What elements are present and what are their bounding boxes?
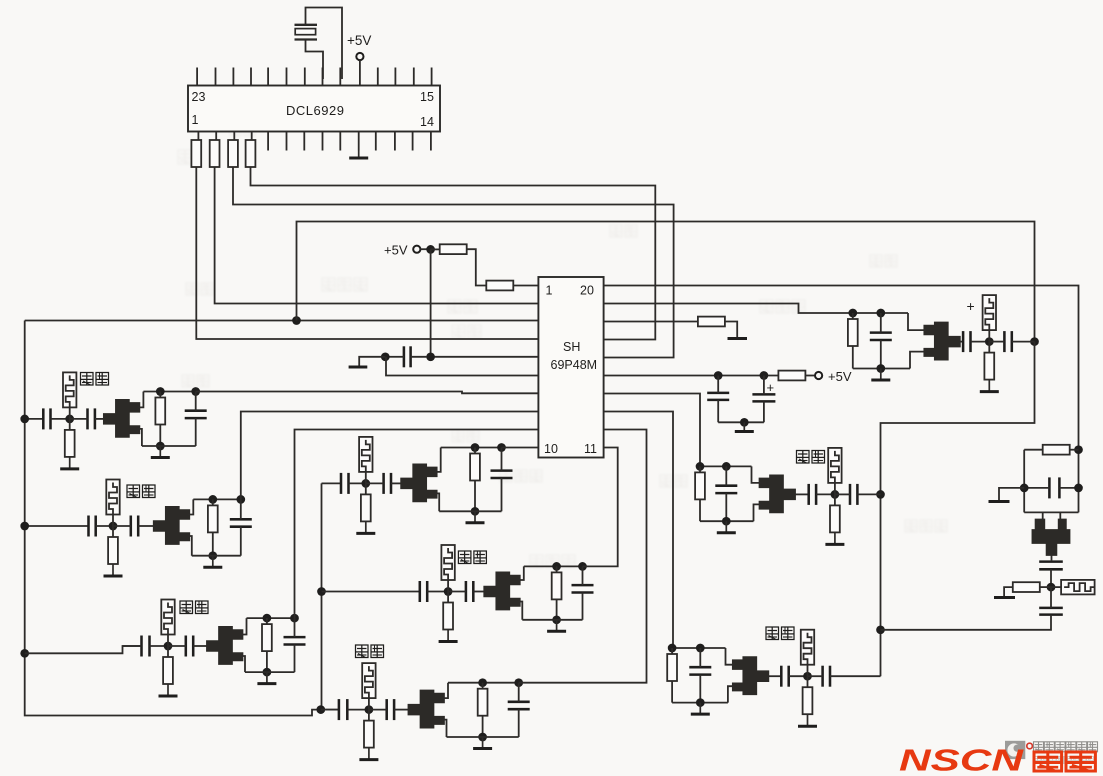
- wire ZHENGZHU(steam) base to cap: [768, 675, 781, 677]
- ground CHAOCAI(stirfry) output: [473, 737, 492, 749]
- wire ground stub (pin5 node): [359, 357, 385, 366]
- node CHAOCAI(stirfry) bus B: [514, 678, 523, 687]
- wire DINGSHI(timer) collector up: [137, 392, 143, 408]
- wire HUOGUO(hotpot) collector up: [518, 566, 524, 580]
- label +5V (U1 pin1): [384, 243, 408, 258]
- ground (right cell top): [989, 500, 1010, 503]
- wire junction to pad: [1051, 586, 1061, 588]
- transistor Q MENGHUO(fiercefire): [759, 474, 796, 513]
- node right cell input junction: [1047, 583, 1056, 592]
- resistor R7 (+5V): [778, 371, 805, 381]
- wire TONGSUO(childlock) collector up: [241, 618, 247, 634]
- node common right column (touchpad + cell): [1030, 337, 1039, 346]
- resistor DINGWEN(temp) load: [212, 499, 214, 505]
- wire cap to HUOGUO(hotpot) junction: [427, 591, 448, 593]
- wire U1 pin3 common bus to left rail: [25, 320, 539, 322]
- node DINGSHI(timer) bus B: [191, 387, 200, 396]
- wire MENGHUO(fiercefire) emitter connector: [754, 504, 762, 521]
- wire junction to cap B KEY5: [366, 482, 384, 484]
- capacitor C6 input B (right cell): [1039, 608, 1063, 615]
- node HUOGUO(hotpot) input junction: [444, 587, 453, 596]
- wire HUOGUO(hotpot) emitter down: [518, 602, 523, 620]
- node MENGHUO(fiercefire) bus A: [696, 462, 705, 471]
- resistor TONGSUO(childlock) load: [266, 618, 268, 624]
- crystal X1 plates: [295, 25, 318, 40]
- wire ZHENGZHU(steam) capA to junction: [789, 675, 808, 677]
- wire HUOGUO(hotpot) filter cap connections: [582, 566, 584, 585]
- wire pin3 riser up and across to right column: [297, 222, 1035, 342]
- wire cap B to transistor base DINGSHI(timer): [95, 418, 104, 420]
- node KEY5 bottom: [471, 507, 480, 516]
- resistor CHAOCAI(stirfry) bias: [368, 710, 370, 721]
- label CHAOCAI 炒菜: [356, 645, 384, 658]
- wire HUOGUO(hotpot) output top bus: [524, 565, 583, 567]
- watermark text 电子工程世界: [1034, 742, 1098, 752]
- label HUOGUO 火锅: [458, 551, 486, 564]
- wire timer output to U1 pin7: [196, 392, 539, 394]
- wire KEY5 emitter down: [435, 493, 440, 511]
- svg-text:14: 14: [420, 115, 434, 129]
- wire menghuo capB to right rail: [857, 493, 880, 495]
- resistor R6: [486, 281, 513, 291]
- wire cap to DINGWEN(temp) junction: [96, 525, 113, 527]
- node ground caps: [740, 418, 749, 427]
- wire KEY5 load to bottom: [474, 480, 476, 511]
- wire DINGWEN(temp) output top bus: [193, 498, 241, 500]
- resistor R9 (right cell): [1024, 449, 1043, 451]
- resistor HUOGUO(hotpot) bias: [447, 592, 449, 603]
- ground PLUSKEY output: [871, 369, 890, 381]
- capacitor C TONGSUO(childlock) input A: [142, 636, 150, 657]
- wire right cell left riser: [1023, 450, 1025, 513]
- wire key5 output bus to U1 pin10: [502, 447, 539, 449]
- wire KEY5 output top bus: [441, 447, 502, 449]
- ground (pin5/6): [349, 366, 368, 369]
- ground DINGWEN(temp) bias: [104, 564, 123, 577]
- wire C5 to junction: [1050, 569, 1052, 587]
- svg-text:+5V: +5V: [384, 243, 408, 258]
- wire PLUSKEY capA to junction: [971, 341, 990, 343]
- wire base down: [1051, 555, 1053, 560]
- wire +5V riser to pin5 node: [430, 249, 432, 356]
- capacitor C MENGHUO(fiercefire) filter: [715, 486, 737, 493]
- wire cap to DINGSHI(timer) junction: [51, 418, 70, 420]
- ground +5V caps: [735, 422, 754, 431]
- wire U1 pin14 to menghuo cell: [604, 394, 700, 467]
- node at pin5 cap right: [426, 352, 435, 361]
- wire CHAOCAI(stirfry) bottom bus: [447, 736, 519, 738]
- transistor Q ZHENGZHU(steam): [732, 656, 769, 695]
- node +5V cap1: [714, 371, 723, 380]
- wire DINGSHI(timer) load to bottom: [159, 424, 161, 446]
- resistor PLUSKEY load: [852, 313, 854, 319]
- wire node to resistor R5: [431, 248, 440, 250]
- capacitor C MENGHUO(fiercefire) input B: [850, 484, 857, 505]
- ground DINGWEN(temp) output: [203, 556, 222, 568]
- resistor R8 (pin18): [698, 317, 725, 327]
- wire PLUSKEY load bottom: [852, 346, 854, 369]
- label + of C3: [767, 380, 775, 395]
- IC U2 name DCL6929: [286, 103, 344, 118]
- wire cap B to transistor base DINGWEN(temp): [138, 525, 154, 527]
- wire childlock output riser to U1 pin9: [295, 430, 539, 619]
- node DINGWEN(temp) bus A: [208, 495, 217, 504]
- wire temp output riser to U1 pin8: [241, 412, 539, 500]
- wire zhengzhu capB to right rail corner: [830, 675, 881, 677]
- wire pad to junction DINGSHI(timer): [69, 407, 71, 419]
- wire pad to junction CHAOCAI(stirfry): [368, 698, 370, 710]
- node mid riser hotpot: [317, 587, 326, 596]
- IC U2 top pin stubs: [196, 68, 198, 86]
- wire CHAOCAI(stirfry) collector up: [442, 683, 448, 698]
- IC U2 DCL6929 body: [188, 86, 440, 132]
- wire pad to junction KEY5: [365, 472, 367, 484]
- node mid riser bottom: [316, 705, 325, 714]
- wire PLUSKEY top bus: [853, 312, 908, 314]
- touch pad MENGHUO(fiercefire): [828, 448, 841, 483]
- resistor PLUSKEY bias: [988, 342, 990, 353]
- wire C3 connections: [763, 376, 765, 395]
- capacitor C1 (pin5): [404, 346, 411, 367]
- node TONGSUO(childlock) bottom: [263, 668, 272, 677]
- wire junction to C6: [1050, 587, 1052, 608]
- svg-text:69P48M: 69P48M: [551, 358, 598, 372]
- capacitor C3 electrolytic: [752, 394, 775, 401]
- wire junction to cap B DINGWEN(temp): [113, 525, 131, 527]
- node C4 right: [1074, 484, 1083, 493]
- wire right column down to second rail: [881, 342, 1035, 677]
- capacitor C HUOGUO(hotpot) input B: [466, 581, 473, 602]
- capacitor C PLUSKEY input B: [1004, 331, 1011, 352]
- wire crystal top loop to U2 pin: [306, 8, 343, 80]
- resistor ZHENGZHU(steam) bias: [807, 676, 809, 687]
- node TONGSUO(childlock) bus A: [263, 614, 272, 623]
- node ZHENGZHU(steam) bottom: [696, 698, 705, 707]
- wire ZHENGZHU(steam) top bus: [672, 647, 725, 649]
- wire U1 pin19 to plus-cell: [604, 304, 853, 314]
- label + (plus key): [967, 298, 975, 314]
- svg-text:1: 1: [546, 284, 553, 298]
- capacitor C DINGWEN(temp) input A: [89, 516, 96, 537]
- node HUOGUO(hotpot) bottom: [552, 615, 561, 624]
- IC U1 pin label 11: [584, 442, 597, 456]
- wire R5 to R6: [466, 249, 486, 285]
- +5V terminal (mid right): [815, 372, 822, 379]
- wire DINGSHI(timer) input from rail: [25, 418, 44, 420]
- label ZHENGZHU 蒸煮: [766, 627, 794, 640]
- wire pad to junction HUOGUO(hotpot): [447, 580, 449, 592]
- node ZHENGZHU(steam) input junction: [803, 672, 812, 681]
- wire U1 pin5 line: [434, 356, 538, 358]
- svg-text:+5V: +5V: [828, 369, 852, 384]
- ground KEY5 output: [466, 511, 485, 523]
- resistor R10 (right cell bias): [1039, 586, 1051, 588]
- wire cap to KEY5 junction: [349, 482, 366, 484]
- wire DINGWEN(temp) emitter down: [187, 536, 192, 556]
- wire R7 to +5V terminal: [805, 375, 815, 377]
- touch pad PLUSKEY: [983, 295, 996, 330]
- ground TONGSUO(childlock) bias: [159, 684, 178, 697]
- label MENGHUO 猛火: [797, 451, 825, 464]
- IC U2 pin label 23: [192, 90, 206, 104]
- capacitor C HUOGUO(hotpot) filter: [572, 585, 594, 592]
- svg-text:SH: SH: [563, 340, 580, 354]
- transistor Q right cell (base down): [1032, 519, 1071, 556]
- wire pad to junction TONGSUO(childlock): [167, 635, 169, 647]
- watermark subtext: [1034, 757, 1094, 764]
- wire ZHENGZHU(steam) emitter connector: [728, 686, 735, 702]
- resistor DINGWEN(temp) bias: [112, 526, 114, 537]
- node DINGWEN(temp) bus B: [236, 495, 245, 504]
- node DINGSHI(timer) bottom: [156, 442, 165, 451]
- IC U2 pin label 15: [420, 90, 434, 104]
- wire R1 to U1 pin4: [196, 167, 538, 340]
- node R9 right: [1074, 445, 1083, 454]
- node MENGHUO(fiercefire) input junction: [831, 490, 840, 499]
- wire TONGSUO(childlock) filter cap connections: [294, 618, 296, 637]
- transistor Q CHAOCAI(stirfry): [408, 690, 445, 729]
- wire cap to CHAOCAI(stirfry) junction: [347, 709, 369, 711]
- wire cap C1 left to node: [389, 356, 404, 358]
- capacitor C ZHENGZHU(steam) input B: [823, 666, 830, 687]
- wire MENGHUO(fiercefire) capA to junction: [816, 493, 835, 495]
- wire CHAOCAI(stirfry) load to bottom: [482, 715, 484, 737]
- ground MENGHUO(fiercefire) output: [717, 521, 736, 533]
- wire R2 to U1 pin2: [215, 167, 539, 304]
- wire MENGHUO(fiercefire) load bottom: [699, 499, 701, 521]
- wire CHAOCAI(stirfry) emitter down: [442, 720, 447, 737]
- wire DINGWEN(temp) collector up: [187, 499, 193, 514]
- touch pad CHAOCAI(stirfry): [362, 663, 375, 698]
- touch pad DINGSHI(timer): [63, 372, 76, 407]
- wire U1 pin15 +5V rail: [604, 375, 779, 377]
- capacitor C PLUSKEY input A: [963, 331, 970, 352]
- capacitor C5 input A (right cell): [1039, 562, 1063, 570]
- +5V terminal (U1 pin1): [413, 246, 420, 253]
- wire crystal bottom to U2 pin: [306, 40, 324, 80]
- wire R3 to U1 pin16: [233, 167, 674, 358]
- capacitor C HUOGUO(hotpot) input A: [420, 581, 427, 602]
- IC U1 name 69P48M: [551, 358, 598, 372]
- +5V supply terminal for U2: [356, 53, 363, 60]
- capacitor C TONGSUO(childlock) filter: [284, 637, 306, 644]
- IC U1 pin label 20: [580, 284, 594, 298]
- svg-text:11: 11: [584, 442, 597, 456]
- node +5V cap2: [760, 371, 769, 380]
- logo NSCN: [899, 743, 1024, 776]
- wire pad to junction DINGWEN(temp): [112, 515, 114, 527]
- wire +5V terminal to U2: [359, 60, 361, 85]
- ground DINGSHI(timer) output: [151, 446, 170, 458]
- ground (right cell bias): [994, 596, 1015, 599]
- wire R6 to U1 pin1: [513, 285, 539, 287]
- IC U2 pin label 14: [420, 115, 434, 129]
- svg-text:20: 20: [580, 284, 594, 298]
- node MENGHUO(fiercefire) bottom: [722, 517, 731, 526]
- wire DINGSHI(timer) bottom bus: [142, 445, 196, 447]
- wire KEY5 collector up: [435, 448, 441, 472]
- wire TONGSUO(childlock) output top bus: [247, 617, 295, 619]
- resistor CHAOCAI(stirfry) load: [482, 683, 484, 689]
- wire bottom rail to stirfry cell: [321, 709, 339, 711]
- svg-text:15: 15: [420, 90, 434, 104]
- ground HUOGUO(hotpot) bias: [439, 629, 458, 642]
- label TONGSUO 童锁: [180, 601, 208, 614]
- wire CHAOCAI(stirfry) input from rail: [322, 709, 339, 711]
- wire R9 to pin20 bus: [1069, 449, 1078, 451]
- capacitor C MENGHUO(fiercefire) input A: [809, 484, 816, 505]
- resistor ZHENGZHU(steam) load: [671, 648, 673, 654]
- wire MENGHUO(fiercefire) collector connector: [752, 466, 762, 483]
- node ZHENGZHU(steam) bus A: [668, 644, 677, 653]
- resistor KEY5 load: [474, 448, 476, 454]
- resistor DINGSHI(timer) load: [159, 392, 161, 398]
- resistor R1 under U2 pin1: [191, 140, 201, 167]
- capacitor C CHAOCAI(stirfry) input B: [387, 699, 394, 720]
- touch pad TONGSUO(childlock): [161, 600, 174, 635]
- node pin3 riser: [292, 316, 301, 325]
- node KEY5 input junction: [361, 479, 370, 488]
- capacitor C DINGSHI(timer) input A: [43, 408, 50, 429]
- logo NANSHAN 南山: [1034, 752, 1062, 771]
- wire DINGSHI(timer) output top bus: [143, 391, 195, 393]
- wire childlock input step from rail: [25, 646, 142, 653]
- wire CHAOCAI(stirfry) filter cap connections: [518, 683, 520, 702]
- wire DINGWEN(temp) bottom bus: [192, 555, 241, 557]
- resistor R3 under U2 pin3: [228, 140, 238, 167]
- wire stirfry output riser to U1 pin12: [519, 430, 647, 683]
- IC U2 pin label 1: [192, 113, 199, 127]
- ground HUOGUO(hotpot) output: [547, 620, 566, 632]
- node CHAOCAI(stirfry) input junction: [365, 705, 374, 714]
- wire PLUSKEY collector connector: [908, 313, 926, 330]
- IC U2 bottom pin stubs: [197, 132, 199, 151]
- ground (pin18): [728, 337, 748, 340]
- IC U1 SH69P48M body: [538, 277, 603, 458]
- wire cap B to transistor base HUOGUO(hotpot): [473, 591, 484, 593]
- wire C6 down to common rail: [881, 615, 1052, 630]
- wire HUOGUO(hotpot) input from rail: [322, 591, 420, 593]
- IC U1 name SH: [563, 340, 580, 354]
- node CHAOCAI(stirfry) bottom: [478, 733, 487, 742]
- label DINGSHI 定时: [81, 373, 109, 386]
- wire R10 to ground: [1004, 587, 1013, 596]
- resistor MENGHUO(fiercefire) load: [699, 466, 701, 472]
- touch pad HUOGUO(hotpot): [441, 545, 454, 580]
- capacitor C2 filter: [707, 393, 729, 400]
- wire hotpot output riser to U1 pin11: [583, 448, 618, 567]
- capacitor C CHAOCAI(stirfry) input A: [339, 699, 347, 720]
- capacitor C KEY5 input B: [384, 473, 391, 494]
- node DINGSHI(timer) bus A: [156, 387, 165, 396]
- wire MENGHUO(fiercefire) bottom bus: [700, 520, 754, 522]
- wire R4 to U1 pin15: [251, 167, 656, 340]
- watermark red ring: [1027, 743, 1033, 749]
- wire junction to cap B CHAOCAI(stirfry): [369, 709, 387, 711]
- wire DINGWEN(temp) load to bottom: [212, 532, 214, 556]
- touch pad KEY5: [359, 437, 372, 472]
- touch pad ZHENGZHU(steam): [801, 630, 814, 665]
- svg-text:+: +: [767, 380, 775, 395]
- svg-text:+: +: [967, 298, 975, 314]
- wire U1 pin6 to ground node: [386, 357, 538, 376]
- node DINGWEN(temp) input junction: [109, 522, 118, 531]
- svg-text:NSCN: NSCN: [899, 743, 1024, 776]
- left common rail: [25, 321, 321, 716]
- node ZHENGZHU(steam) bus B: [696, 644, 705, 653]
- resistor HUOGUO(hotpot) load: [556, 566, 558, 572]
- transistor Q TONGSUO(childlock): [206, 626, 243, 665]
- ground DINGSHI(timer) bias: [60, 456, 79, 469]
- capacitor C CHAOCAI(stirfry) filter: [508, 702, 530, 709]
- capacitor C TONGSUO(childlock) input B: [186, 636, 193, 657]
- wire MENGHUO(fiercefire) base to cap: [795, 493, 809, 495]
- wire U1 pin20 long bus to right cell: [604, 286, 1079, 513]
- node TONGSUO(childlock) bus B: [290, 614, 299, 623]
- node KEY5 bus A: [471, 443, 480, 452]
- capacitor C DINGSHI(timer) filter: [185, 411, 207, 418]
- wire C4 right: [1059, 487, 1078, 489]
- transistor Q KEY5: [400, 463, 437, 502]
- node temp input on rail: [20, 522, 29, 531]
- wire DINGWEN(temp) input from rail: [25, 525, 89, 527]
- resistor R2 under U2 pin2: [210, 140, 220, 167]
- wire TONGSUO(childlock) emitter down: [241, 656, 246, 672]
- wire ZHENGZHU(steam) load bottom: [671, 681, 673, 703]
- label DINGWEN 定温: [127, 485, 155, 498]
- node PLUSKEY bottom: [876, 364, 885, 373]
- capacitor C KEY5 filter: [491, 471, 513, 478]
- label +5V (mid right): [828, 369, 852, 384]
- wire terminal to node: [420, 248, 427, 250]
- capacitor C DINGWEN(temp) filter: [230, 519, 252, 526]
- wire KEY5 input from rail: [322, 482, 342, 484]
- capacitor C4 (right cell): [1049, 477, 1059, 498]
- wire transistor arm connectors (right cell): [1042, 512, 1044, 520]
- node TONGSUO(childlock) input junction: [164, 642, 173, 651]
- wire MENGHUO(fiercefire) top bus: [700, 465, 752, 467]
- wire R8 to ground: [724, 322, 737, 338]
- node KEY5 bus B: [497, 443, 506, 452]
- touch pad right cell (horizontal): [1061, 580, 1095, 595]
- node CHAOCAI(stirfry) bus A: [478, 678, 487, 687]
- node common at right cell bottom: [876, 625, 885, 634]
- capacitor C DINGWEN(temp) input B: [131, 516, 138, 537]
- wire caps common to ground: [718, 421, 764, 423]
- wire junction to cap B TONGSUO(childlock): [168, 645, 186, 647]
- ground ZHENGZHU(steam) output: [691, 703, 710, 715]
- node childlock input on rail: [20, 649, 29, 658]
- wire U1 pin18 to R8: [604, 321, 698, 323]
- resistor MENGHUO(fiercefire) bias: [834, 494, 836, 505]
- node PLUSKEY input junction: [985, 337, 994, 346]
- IC U1 pin label 10: [544, 442, 558, 456]
- svg-text:10: 10: [544, 442, 558, 456]
- node common at fierce-fire cell: [876, 490, 885, 499]
- ground KEY5 bias: [356, 521, 375, 534]
- svg-text:23: 23: [192, 90, 206, 104]
- touch pad DINGWEN(temp): [106, 480, 119, 515]
- node PLUSKEY bus A: [848, 309, 857, 318]
- wire cap to TONGSUO(childlock) junction: [150, 645, 169, 647]
- wire cap B to transistor base CHAOCAI(stirfry): [394, 709, 408, 711]
- ground PLUSKEY bias: [980, 379, 999, 392]
- mid common riser: [321, 483, 323, 709]
- wire KEY5 filter cap connections: [501, 448, 503, 471]
- wire TONGSUO(childlock) bottom bus: [245, 671, 295, 673]
- ground ZHENGZHU(steam) bias: [798, 714, 817, 727]
- wire PLUSKEY emitter connector: [910, 352, 926, 369]
